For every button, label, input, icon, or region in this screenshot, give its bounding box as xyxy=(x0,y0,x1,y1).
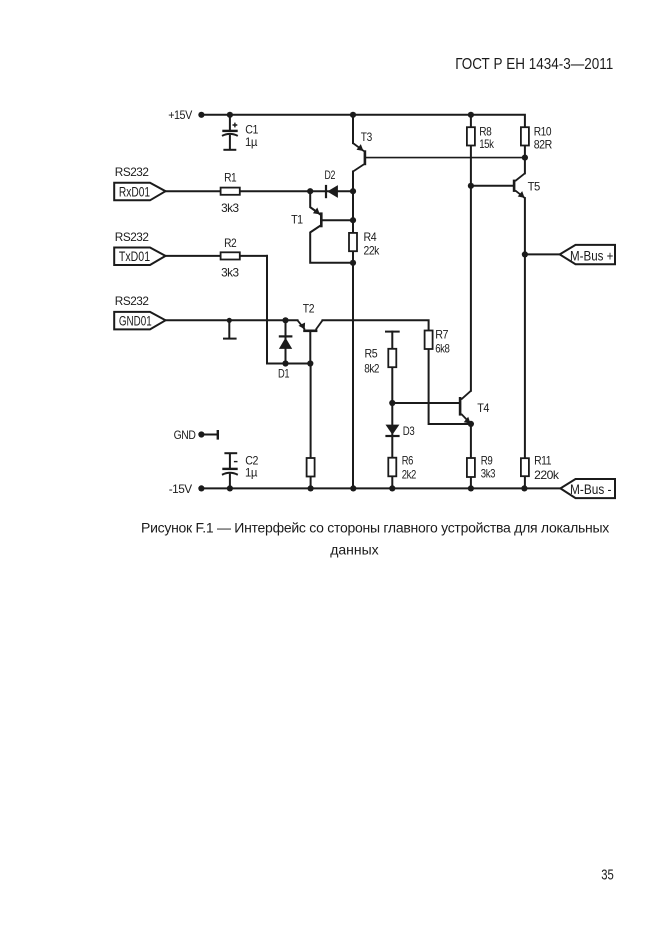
resistor R5 xyxy=(388,349,396,367)
resistor R6 xyxy=(388,458,396,477)
resistor R11 xyxy=(521,458,529,476)
svg-text:данных: данных xyxy=(330,541,378,557)
svg-text:TxD01: TxD01 xyxy=(119,249,150,264)
svg-text:T3: T3 xyxy=(361,130,373,144)
svg-text:GND: GND xyxy=(174,428,197,442)
resistor R1 xyxy=(221,188,240,195)
diode D2 xyxy=(326,185,338,198)
resistor R3 xyxy=(307,458,315,477)
wire R5 stem xyxy=(391,332,393,349)
wire T1 collector down and right xyxy=(310,226,353,263)
resistor R2 xyxy=(221,252,240,259)
wire R7 column and bottom jog to T4 emitter node xyxy=(429,349,471,424)
svg-text:T4: T4 xyxy=(477,401,490,415)
resistor R10 xyxy=(521,127,529,145)
svg-text:T1: T1 xyxy=(291,213,303,227)
diode D3 xyxy=(385,425,399,436)
wire T5 collector riser xyxy=(524,158,526,174)
wire R3 column to -15V rail xyxy=(310,364,312,489)
wire M-Bus + branch xyxy=(525,253,560,255)
wire R5 bottom to D3 R6 column xyxy=(391,367,393,488)
svg-text:D2: D2 xyxy=(325,168,336,182)
resistor R7 xyxy=(425,331,433,350)
diode D1 xyxy=(279,336,293,349)
svg-text:RS232: RS232 xyxy=(115,230,149,244)
wire T5 emitter column to M-Bus + and R11 xyxy=(524,198,526,458)
svg-text:RS232: RS232 xyxy=(115,294,149,308)
transistor T2 xyxy=(298,320,323,331)
wire -15V bottom rail xyxy=(201,487,560,489)
svg-text:M-Bus -: M-Bus - xyxy=(570,482,612,497)
wire R8 column down to T4 collector xyxy=(470,146,472,391)
connector RxD01 xyxy=(114,183,165,201)
svg-text:1µ: 1µ xyxy=(245,135,258,149)
resistor R9 xyxy=(467,458,475,477)
svg-text:T5: T5 xyxy=(528,179,541,193)
transistor T1 xyxy=(310,207,321,232)
svg-text:+15V: +15V xyxy=(168,108,192,122)
svg-text:82R: 82R xyxy=(534,138,553,152)
svg-text:R2: R2 xyxy=(224,236,237,250)
wire GND01 stub terminator bar xyxy=(224,338,236,340)
svg-text:6k8: 6k8 xyxy=(435,342,450,356)
wire T3 upper column from +15V rail xyxy=(352,115,354,143)
svg-text:R7: R7 xyxy=(435,327,449,341)
resistor R4 xyxy=(349,233,357,251)
svg-text:1µ: 1µ xyxy=(245,466,258,480)
wire T5 base xyxy=(471,185,513,187)
transistor T3 xyxy=(353,143,365,171)
wire R8 top stem xyxy=(470,115,472,127)
svg-text:D1: D1 xyxy=(278,366,290,380)
wire T1 emitter feed xyxy=(310,191,320,214)
svg-text:R10: R10 xyxy=(534,124,552,138)
connector M-Bus plus xyxy=(560,245,615,264)
wire main column T3 collector to -15V rail xyxy=(352,172,354,489)
capacitor C1 xyxy=(222,115,238,150)
wire R5 terminator bar xyxy=(386,331,399,333)
svg-text:R9: R9 xyxy=(481,453,493,467)
svg-text:15k: 15k xyxy=(479,137,495,151)
wire T2 base xyxy=(309,332,311,364)
wire T1 base xyxy=(323,219,354,221)
svg-text:22k: 22k xyxy=(364,243,381,257)
svg-text:R4: R4 xyxy=(364,230,377,244)
wire T3 base line to R10 bottom xyxy=(366,157,525,159)
resistor R8 xyxy=(467,127,475,145)
wire GND01 line xyxy=(165,319,298,321)
wire T4 emitter node to R9 to rail xyxy=(470,424,472,489)
svg-text:ГОСТ Р ЕН 1434-3—2011: ГОСТ Р ЕН 1434-3—2011 xyxy=(455,56,613,73)
junction dots xyxy=(198,112,528,492)
svg-text:3k3: 3k3 xyxy=(481,467,496,481)
wire R10 bottom stem xyxy=(524,146,526,158)
svg-text:R11: R11 xyxy=(534,453,552,467)
wire GND01 open stub xyxy=(228,320,230,337)
svg-text:220k: 220k xyxy=(534,468,560,482)
svg-text:RxD01: RxD01 xyxy=(119,184,150,199)
wire R2 column down then right to T2 base junction xyxy=(267,256,310,364)
svg-text:3k3: 3k3 xyxy=(221,201,239,215)
wire TxD01 line xyxy=(166,255,267,257)
svg-text:8k2: 8k2 xyxy=(364,361,380,375)
svg-text:R1: R1 xyxy=(224,171,237,185)
svg-text:D3: D3 xyxy=(403,424,415,438)
svg-text:-15V: -15V xyxy=(169,482,192,496)
wire RxD01 line to main column xyxy=(166,190,353,192)
connector GND01 xyxy=(114,312,165,330)
svg-text:R5: R5 xyxy=(365,346,378,360)
connector TxD01 xyxy=(114,248,165,266)
wire +15V top rail xyxy=(201,115,525,127)
wire R11 bottom stem xyxy=(524,476,526,488)
svg-text:RS232: RS232 xyxy=(115,165,149,179)
wire T4 base line xyxy=(392,402,459,404)
ground GND symbol xyxy=(201,430,217,440)
svg-text:GND01: GND01 xyxy=(119,313,152,328)
svg-text:M-Bus +: M-Bus + xyxy=(570,248,613,263)
wire T2 collector line to R7 xyxy=(323,320,429,330)
wire D1 column xyxy=(285,320,287,363)
transistor T5 xyxy=(514,173,525,198)
svg-text:35: 35 xyxy=(601,866,614,883)
svg-text:Рисунок F.1 — Интерфейс со сто: Рисунок F.1 — Интерфейс со стороны главн… xyxy=(141,520,609,536)
svg-text:3k3: 3k3 xyxy=(221,265,239,279)
connector M-Bus minus xyxy=(560,479,615,498)
capacitor C2 xyxy=(222,453,238,488)
transistor T4 xyxy=(460,391,471,424)
svg-text:2k2: 2k2 xyxy=(402,467,417,481)
svg-text:T2: T2 xyxy=(303,302,315,316)
svg-text:R6: R6 xyxy=(402,454,414,468)
